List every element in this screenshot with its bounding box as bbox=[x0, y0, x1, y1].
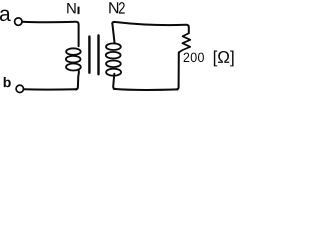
wire a to primary top bbox=[22, 22, 78, 47]
primary bottom lead bbox=[76, 70, 79, 90]
transformer core bar right bbox=[97, 35, 99, 74]
transformer secondary winding N2 (4 loops) bbox=[106, 43, 121, 50]
bottom wire b to primary bbox=[24, 88, 77, 90]
svg-text:200: 200 bbox=[183, 50, 205, 66]
resistor R zigzag bbox=[179, 33, 191, 52]
svg-text:2: 2 bbox=[118, 0, 125, 18]
bottom wire secondary to resistor bbox=[114, 89, 178, 90]
terminal b circle bbox=[16, 85, 23, 92]
transformer primary winding N1 (3 loops) bbox=[66, 48, 81, 55]
label N1 subscript 1 bbox=[78, 7, 80, 14]
secondary bottom lead bbox=[113, 74, 115, 89]
terminal a circle bbox=[15, 18, 22, 25]
transformer core bar left bbox=[88, 37, 90, 73]
resistor bottom lead bbox=[176, 52, 179, 89]
top wire secondary to resistor bbox=[114, 22, 189, 33]
svg-text:a: a bbox=[0, 3, 11, 26]
svg-text:[Ω]: [Ω] bbox=[213, 48, 235, 67]
svg-text:b: b bbox=[3, 74, 12, 90]
svg-text:N: N bbox=[66, 0, 77, 17]
secondary top lead bbox=[112, 22, 114, 43]
